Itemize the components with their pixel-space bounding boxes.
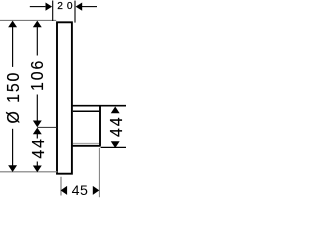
dimension 44 (knob height, right) [111, 107, 120, 114]
vertical extension line plate face (45 dim) [60, 177, 62, 196]
bottom extension line (plate bottom, gray) [0, 171, 58, 173]
svg-text:44: 44 [28, 137, 48, 158]
svg-text:106: 106 [27, 59, 47, 91]
top extension line (plate top, gray) [0, 19, 56, 21]
svg-text:2: 2 [57, 1, 63, 12]
dimension 106 (left) [33, 21, 42, 28]
dimension 45 (bottom) [61, 186, 68, 195]
knob bottom extension line to 44 dim [101, 146, 126, 148]
svg-text:44: 44 [106, 116, 126, 137]
svg-text:5: 5 [80, 183, 88, 199]
knob top seam line [73, 110, 99, 112]
knob bottom seam line (gray) [73, 142, 99, 144]
knob top edge + extension line to 44 dim [72, 105, 126, 107]
knob front face [99, 106, 101, 146]
svg-text:Ø 150: Ø 150 [3, 71, 23, 124]
knob bottom edge [72, 145, 101, 147]
svg-text:0: 0 [67, 1, 73, 12]
dimension Ø 150 (left) [8, 21, 17, 28]
wall plate (escutcheon, side view) [57, 22, 72, 173]
dimension 44 (left) [33, 128, 42, 135]
dimension 20 (top) [30, 6, 46, 8]
svg-text:4: 4 [72, 183, 80, 199]
vertical extension line knob front (45 dim) [98, 148, 100, 197]
center-axis extension line (106/44 junction) [37, 126, 56, 128]
